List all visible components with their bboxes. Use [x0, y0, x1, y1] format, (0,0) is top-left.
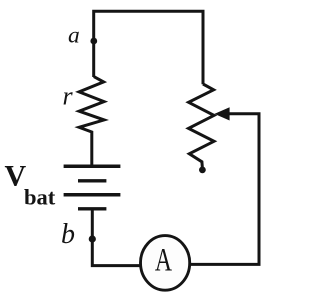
battery long plate 2: [64, 193, 121, 197]
node b junction dot: [89, 235, 96, 242]
wire ammeter right to far-right vertical up to arrow: [190, 114, 259, 265]
ammeter A circle: [141, 236, 190, 291]
rheostat wiper terminal dot: [199, 167, 206, 174]
arrowhead of rheostat wiper: [214, 107, 229, 120]
svg-text:b: b: [61, 219, 75, 250]
wire top loop: left vertical, top horizontal, right vertical: [94, 11, 203, 84]
resistor r zigzag: [79, 77, 104, 166]
battery short plate 2: [78, 207, 106, 210]
rheostat R zigzag (right branch): [189, 84, 215, 167]
svg-text:a: a: [68, 23, 80, 49]
battery short plate 1: [78, 179, 106, 182]
svg-text:r: r: [63, 81, 74, 110]
battery V_bat plates: [64, 166, 121, 209]
svg-text:bat: bat: [24, 184, 56, 209]
wire battery bottom to node b to bottom-left corner to ammeter: [92, 209, 140, 266]
svg-text:A: A: [155, 242, 172, 279]
node a junction dot: [90, 38, 97, 45]
battery long plate 1: [64, 165, 121, 169]
